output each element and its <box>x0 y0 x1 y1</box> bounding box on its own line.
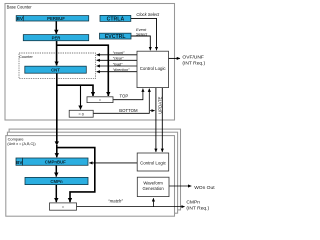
register CMPn <box>25 177 88 184</box>
wire UPDATE rail 1 down to compare control logic <box>155 88 157 152</box>
svg-text:PERBUF: PERBUF <box>47 16 65 21</box>
wire count <box>97 54 137 56</box>
svg-text:WOn Out: WOn Out <box>194 185 215 191</box>
frame Base Counter <box>5 4 175 121</box>
svg-text:CMPn: CMPn <box>50 179 63 184</box>
svg-text:Control Logic: Control Logic <box>140 66 167 71</box>
svg-text:(INT Req.): (INT Req.) <box>186 206 209 212</box>
register BV (base) <box>16 16 23 21</box>
svg-text:OVF/UNF: OVF/UNF <box>182 54 203 60</box>
svg-text:(INT Req.): (INT Req.) <box>182 60 205 66</box>
wire branch down to =0 <box>80 85 82 109</box>
wire BOTTOM feedback <box>93 89 149 114</box>
comparator = (base) <box>87 97 113 103</box>
wire BOTTOM stub arrow to update rail <box>150 110 155 112</box>
wire compare CL to CMPnBUF <box>89 162 137 164</box>
svg-text:TOP: TOP <box>120 94 129 99</box>
wire CNT down to compare section (bold) <box>56 73 58 143</box>
svg-text:Clock Select: Clock Select <box>136 12 160 17</box>
wire compare branch to right rail (bold) <box>57 148 95 203</box>
wire load <box>97 65 137 67</box>
comparator = 0 <box>69 110 93 117</box>
svg-text:Waveform: Waveform <box>143 181 163 186</box>
dashed box Counter <box>19 53 96 79</box>
register EVCTRL <box>100 33 132 39</box>
svg-text:Compare: Compare <box>8 137 24 142</box>
svg-text:UPDATE: UPDATE <box>157 97 162 114</box>
register CTRLA <box>100 15 131 21</box>
block Control Logic (base) <box>137 51 169 87</box>
svg-text:“count”: “count” <box>113 51 126 55</box>
register PERBUF <box>23 16 88 21</box>
wire EVCTRL to Control Logic (Event Select) <box>131 36 150 50</box>
svg-text:CMPn: CMPn <box>186 200 200 206</box>
svg-text:Control Logic: Control Logic <box>140 161 167 166</box>
wire TOP feedback <box>113 89 143 100</box>
wire direction <box>97 71 137 73</box>
wire match branch up to waveform generation <box>152 198 154 206</box>
frame Compare front A <box>6 136 175 217</box>
register CMPnBUF <box>23 158 88 165</box>
wire CTRLA to Control Logic (Clock Select) <box>131 18 157 50</box>
register CNT <box>25 66 87 73</box>
svg-text:“load”: “load” <box>113 62 123 66</box>
svg-text:= 0: = 0 <box>79 112 84 116</box>
svg-text:BV: BV <box>17 16 24 21</box>
wire PER down to CNT (bold) <box>56 41 58 66</box>
register PER <box>23 35 88 41</box>
svg-text:“direction”: “direction” <box>113 68 131 72</box>
wire rail 2 down to compare control logic <box>161 88 163 152</box>
wire match output <box>77 206 185 208</box>
svg-text:EVCTRL: EVCTRL <box>105 34 127 40</box>
svg-text:CTRLA: CTRLA <box>107 16 125 22</box>
svg-text:(Unit x = {A,B,C}): (Unit x = {A,B,C}) <box>7 142 35 146</box>
register BV (compare) <box>16 158 23 165</box>
comparator = (compare) <box>50 203 77 210</box>
svg-text:PER: PER <box>52 35 62 40</box>
wire PERBUF to PER <box>55 21 57 34</box>
svg-text:“clear”: “clear” <box>113 57 124 61</box>
svg-text:CMPnBUF: CMPnBUF <box>45 160 66 165</box>
svg-text:“match”: “match” <box>108 199 123 204</box>
block Waveform Generation <box>137 177 169 196</box>
wire CNT branch right to = comparator (bold) <box>57 85 93 96</box>
svg-text:Counter: Counter <box>19 54 34 59</box>
frame Compare back C <box>9 129 180 210</box>
wire clear <box>97 59 137 61</box>
wire CMPn to comparator <box>55 185 57 203</box>
svg-text:BOTTOM: BOTTOM <box>119 108 138 113</box>
svg-text:Base Counter: Base Counter <box>7 5 33 10</box>
frame Compare middle B <box>7 132 177 213</box>
wire OVF/UNF interrupt <box>169 57 181 59</box>
svg-text:Generation: Generation <box>142 186 164 191</box>
wire CMPnBUF to CMPn <box>55 165 57 176</box>
svg-text:Select: Select <box>136 31 148 36</box>
svg-text:CNT: CNT <box>51 68 60 73</box>
arrowhead mid CNT bus <box>55 141 59 145</box>
wire WOn output <box>169 185 191 187</box>
block Control Logic (compare) <box>137 153 169 171</box>
wire PER branch right to comparator (bold) <box>57 45 109 96</box>
